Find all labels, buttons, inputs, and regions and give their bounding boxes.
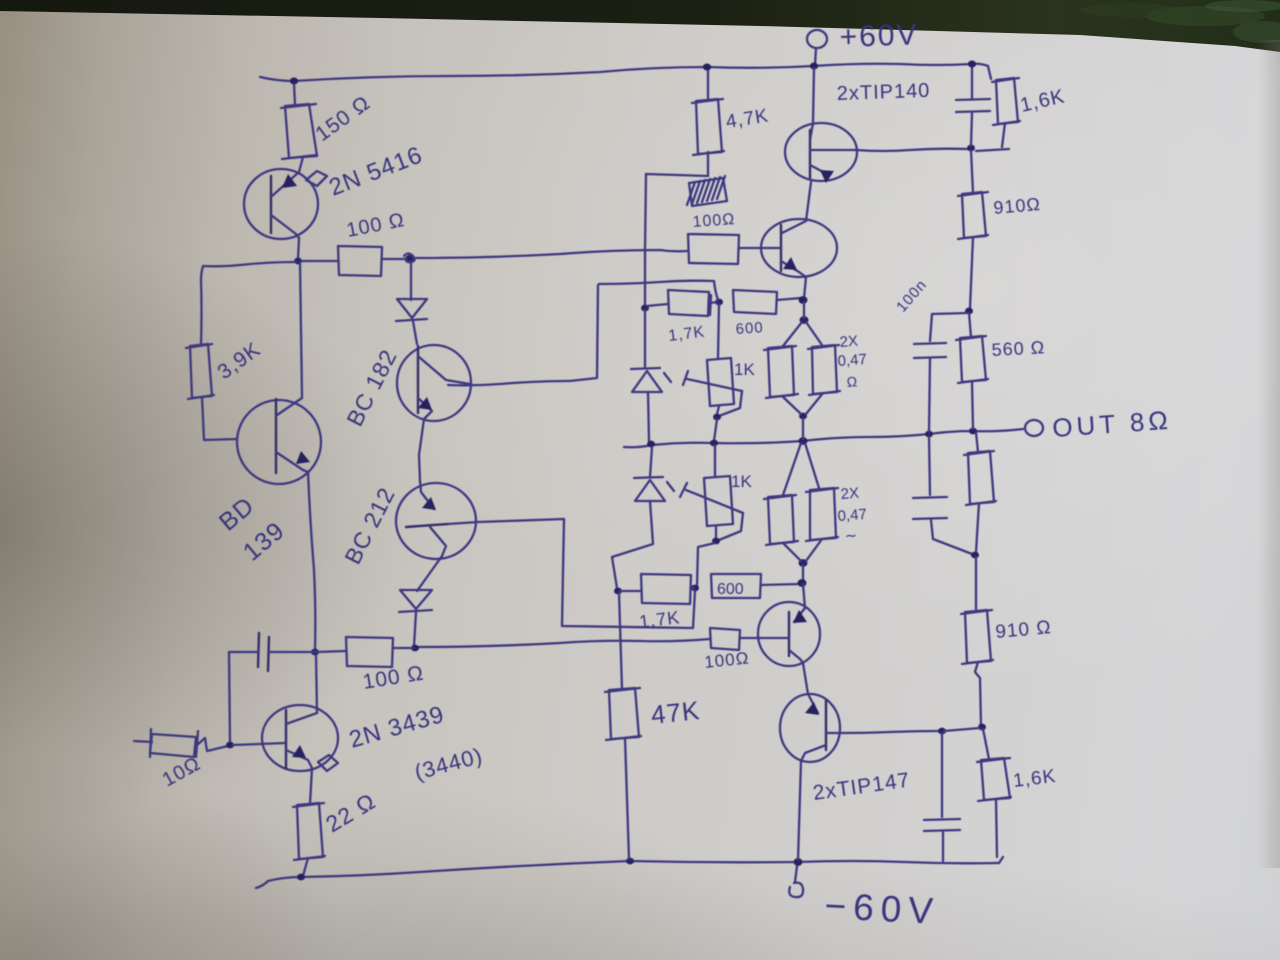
- wire Q3 emitter down: [310, 768, 312, 804]
- wire Q2 emitter down: [308, 472, 315, 650]
- svg-text:1,6K: 1,6K: [1012, 766, 1057, 792]
- wire feedback loop upper: [599, 281, 718, 300]
- wire Q9 collector to rail: [798, 761, 801, 860]
- wire R2 to node: [382, 258, 406, 260]
- wire Q7 base out: [448, 522, 478, 524]
- node 1.7K-47K junction: [614, 588, 622, 595]
- node Q3 base node: [226, 742, 234, 749]
- svg-text:Ω: Ω: [846, 373, 858, 390]
- svg-text:600: 600: [717, 581, 744, 598]
- wire mid column to D2: [644, 310, 646, 368]
- wire node to R2b: [393, 647, 413, 649]
- resistor R24 1.6K bottom: [981, 758, 1010, 800]
- wire Q2 collector up to node: [300, 263, 302, 397]
- wire mid rail to VR2: [714, 445, 716, 477]
- wire R3 to Q2 base: [202, 397, 237, 440]
- svg-text:∼: ∼: [844, 527, 858, 545]
- node R23-R24 junction: [978, 724, 986, 731]
- node 0.47 top node: [800, 316, 809, 324]
- resistor R6 4.7K: [696, 99, 722, 154]
- node VAS output node: [294, 258, 302, 265]
- svg-text:1K: 1K: [734, 360, 755, 379]
- resistor R5 22ohm: [297, 803, 323, 859]
- svg-text:0,47: 0,47: [837, 351, 867, 370]
- wire Q1 emitter to node: [298, 238, 299, 259]
- node R14-R15 junction: [691, 585, 699, 592]
- resistor R19 0.47 lower-left: [768, 495, 794, 544]
- wire C1 right plate to node: [269, 651, 315, 653]
- svg-text:OUT 8Ω: OUT 8Ω: [1051, 405, 1172, 443]
- node rail at C2: [968, 61, 976, 68]
- wire node to R12: [647, 304, 668, 306]
- node R22-R23 junction: [971, 552, 979, 559]
- resistor R22 910ohm below out: [968, 451, 994, 504]
- diode D3 bias lower: [635, 480, 665, 501]
- wire R15 to Q8 node: [761, 584, 800, 585]
- wire node run y730: [944, 728, 980, 731]
- svg-text:22 Ω: 22 Ω: [321, 788, 380, 838]
- wire R13 to Q4 emitter node: [777, 298, 801, 300]
- wire node to D1: [410, 262, 412, 300]
- diode D4: [400, 590, 432, 609]
- wire R24 to rail: [996, 799, 997, 857]
- svg-text:600: 600: [735, 319, 764, 338]
- capacitor C2 compensation: [971, 67, 973, 98]
- resistor R21 47K: [609, 688, 639, 739]
- resistor R3 3.9K: [190, 344, 212, 398]
- svg-text:100Ω: 100Ω: [692, 211, 736, 231]
- wire R9 to node: [1002, 123, 1005, 147]
- svg-text:100n: 100n: [893, 276, 930, 315]
- transistor Q7 BC212: [396, 483, 476, 559]
- wire +60V top supply rail: [260, 64, 988, 81]
- terminal +60V: [807, 30, 827, 48]
- resistor R10 910ohm top: [962, 192, 986, 238]
- transistor Q4 driver NPN: [761, 219, 837, 277]
- node VR1 bottom: [713, 414, 721, 421]
- svg-text:BC 212: BC 212: [339, 483, 400, 569]
- wire 0.47 bottoms join: [783, 543, 801, 561]
- pin Q1 collector flag: [306, 171, 327, 186]
- svg-text:3,9K: 3,9K: [213, 338, 265, 384]
- resistor R4 10ohm input: [134, 741, 152, 742]
- svg-text:1,7K: 1,7K: [667, 324, 706, 345]
- node R10-R11 junction: [965, 308, 973, 315]
- wire output rail: [624, 429, 1023, 447]
- wire D2 to mid rail: [648, 392, 649, 441]
- resistor R18 0.47 upper-right: [812, 345, 837, 394]
- svg-text:BD: BD: [214, 492, 260, 537]
- resistor R23 910ohm lower: [965, 610, 991, 663]
- wire node to R10: [971, 150, 973, 193]
- wire node to Q8 node: [802, 565, 804, 581]
- table surface at top (photo background): [0, 0, 1280, 52]
- svg-text:2xTIP140: 2xTIP140: [836, 80, 930, 105]
- resistor R11 560ohm: [960, 336, 986, 382]
- wire VR2 to node: [715, 526, 717, 538]
- svg-text:2N 3439: 2N 3439: [346, 701, 447, 754]
- node feedback takeoff: [967, 145, 975, 152]
- wire Q5 emitter to 1.6K node: [856, 149, 967, 151]
- transistor Q1 2N5416: [244, 169, 318, 239]
- node input-stage emitter node: [311, 649, 319, 656]
- svg-text:100Ω: 100Ω: [703, 648, 750, 672]
- wire node to R24: [983, 729, 989, 759]
- transistor Q5 2xTIP140: [785, 123, 857, 181]
- resistor R14 1.7K lower: [641, 574, 691, 604]
- wire R11 to out rail: [972, 381, 973, 429]
- svg-text:47K: 47K: [649, 695, 701, 730]
- potentiometer VR2 1K lower: [704, 476, 733, 526]
- resistor R2 100ohm left: [338, 246, 382, 276]
- wire R23 to node: [975, 662, 981, 726]
- resistor R8 100ohm to driver: [688, 234, 739, 264]
- node out rail at R11: [969, 428, 977, 435]
- wire Q8 collector to Q9: [803, 663, 808, 694]
- wire VR2 node to 600 node: [697, 543, 715, 586]
- node signal junction: [405, 255, 415, 264]
- potentiometer VR1 1K upper: [707, 358, 734, 406]
- wire R1 to Q1: [299, 157, 303, 172]
- node +60V rail junction: [810, 63, 818, 70]
- wire R22 to node: [976, 503, 979, 552]
- svg-text:150 Ω: 150 Ω: [311, 91, 374, 146]
- wire R14 to node: [620, 590, 641, 592]
- diode D2 bias: [632, 371, 662, 392]
- wire R6 bottom to mid column: [645, 152, 708, 306]
- transistor Q2 BD139: [237, 400, 321, 484]
- svg-text:0,47: 0,47: [837, 506, 867, 525]
- capacitor C5 output zobel: [941, 733, 943, 817]
- node rail at R6: [703, 64, 711, 71]
- resistor R15 600 lower: [711, 574, 761, 598]
- node out rail at 0.47 pair: [799, 437, 808, 445]
- wire node to 3.9K: [201, 262, 296, 344]
- pin Q3 emitter flag: [318, 755, 338, 771]
- svg-text:1K: 1K: [731, 472, 752, 491]
- svg-text:100 Ω: 100 Ω: [345, 209, 407, 242]
- wire 100ohm line from left: [417, 639, 710, 647]
- wire R16 to Q8 base: [740, 637, 759, 639]
- svg-text:2N 5416: 2N 5416: [325, 141, 426, 201]
- node rail at Q9 emitter: [794, 858, 803, 866]
- svg-text:2X: 2X: [839, 333, 859, 351]
- svg-text:910 Ω: 910 Ω: [995, 617, 1053, 643]
- resistor R17 0.47 upper-left: [768, 346, 794, 397]
- node rail at R5: [297, 874, 305, 881]
- wire Q3 collector up: [316, 655, 317, 713]
- right paper edge shading: [0, 0, 1, 1]
- capacitor C4 100n lower: [929, 436, 930, 495]
- wire node to Q3 base: [233, 743, 286, 745]
- wire R10 to node: [970, 237, 973, 308]
- wire Q4 emitter to node: [804, 277, 806, 298]
- resistor R7 100ohm hatched: [689, 178, 727, 206]
- wire node to R23: [975, 557, 977, 611]
- svg-text:+60V: +60V: [839, 18, 919, 54]
- resistor R1 150ohm lead: [294, 84, 295, 105]
- wire node to R21: [619, 593, 622, 689]
- wire out rail to R22: [976, 432, 978, 452]
- diode D1: [397, 299, 427, 318]
- wire R2b left lead: [317, 651, 346, 652]
- resistor R16 100ohm lower: [710, 628, 740, 650]
- svg-text:560 Ω: 560 Ω: [991, 337, 1045, 360]
- wire rail to Q5 collector: [813, 68, 814, 123]
- terminal -60V: [795, 866, 797, 882]
- wire Q6 emitter to Q7: [419, 419, 424, 481]
- wire BC212 base run: [479, 519, 695, 628]
- wire 0.47 bottoms to node: [782, 396, 801, 414]
- svg-text:−60V: −60V: [824, 885, 941, 932]
- resistor R20 0.47 lower-right: [810, 488, 836, 540]
- resistor R2b 100ohm bottom-left: [346, 637, 393, 667]
- node Q4 emitter node: [799, 296, 808, 304]
- resistor R1 150ohm: [285, 104, 317, 158]
- capacitor C1 input coupling: [258, 633, 259, 667]
- wire Q7 collector to D4: [417, 556, 442, 591]
- svg-text:4,7K: 4,7K: [724, 105, 770, 132]
- svg-text:(3440): (3440): [412, 743, 486, 785]
- resistor R13 600 upper: [733, 290, 777, 314]
- transistor Q3 2N3439: [262, 705, 338, 771]
- node out rail at VR2: [710, 440, 718, 447]
- node 100ohm-D4 junction: [411, 645, 419, 652]
- wire R14 right lead: [691, 588, 694, 589]
- node rail at 47K: [626, 858, 634, 865]
- wire D3 to 1.7K lower: [612, 501, 653, 588]
- transistor Q9 2xTIP147: [780, 694, 840, 762]
- svg-text:1,6K: 1,6K: [1018, 85, 1067, 117]
- svg-text:2xTIP147: 2xTIP147: [811, 769, 911, 805]
- wire D4 to 100ohm node: [414, 612, 416, 646]
- wire BC182 collector run: [570, 285, 598, 381]
- wire Q4 node to 0.47 tops: [803, 302, 805, 318]
- wire node to VR1: [718, 304, 719, 358]
- terminal OUT: [1025, 420, 1043, 436]
- wire -60V bottom supply rail: [256, 861, 999, 888]
- wire VR1 to node: [717, 406, 719, 414]
- svg-text:910Ω: 910Ω: [993, 194, 1042, 218]
- transistor Q6 BC182: [397, 345, 471, 421]
- wire Q4 collector to Q5: [806, 182, 811, 221]
- wire R8 to Q4 base: [739, 247, 763, 249]
- resistor R9 1.6K top: [996, 78, 1018, 124]
- wire C1 left to input node: [229, 652, 258, 743]
- node bias top node: [641, 305, 649, 312]
- wire node to R2: [301, 260, 338, 262]
- wire signal line to VAS stage: [416, 250, 687, 258]
- node Q8 emitter node: [798, 579, 807, 587]
- wire rail to R6: [707, 69, 709, 100]
- wire node to R11: [969, 313, 971, 337]
- wire Q9 base right: [840, 731, 940, 733]
- wire D1 to Q6 base: [413, 321, 417, 344]
- wire VR1 node to mid rail: [714, 419, 717, 441]
- wire R5 to -60V rail: [303, 858, 308, 876]
- svg-text:BC 182: BC 182: [341, 345, 402, 431]
- node out rail at C4: [925, 431, 933, 438]
- svg-text:2X: 2X: [840, 485, 860, 503]
- node out rail at D3: [647, 441, 655, 448]
- node 0.47 lower bottom node: [799, 559, 808, 567]
- capacitor C3 100n upper: [930, 313, 967, 341]
- resistor R12 1.7K upper: [668, 290, 709, 316]
- node top-rail left junction: [290, 78, 298, 85]
- node 0.47 bottom node: [799, 413, 807, 420]
- wire R21 to rail: [625, 738, 629, 859]
- node VR2 bottom: [712, 538, 720, 545]
- node Q9 base-C5 junction: [938, 728, 946, 735]
- node R12-R13 junction: [715, 299, 723, 306]
- wire D3 top: [650, 447, 652, 477]
- wire out rail to 0.47 tops: [783, 443, 801, 495]
- wire R12 to node: [710, 302, 717, 303]
- svg-text:10Ω: 10Ω: [159, 753, 205, 792]
- transistor Q8 driver PNP: [758, 602, 820, 666]
